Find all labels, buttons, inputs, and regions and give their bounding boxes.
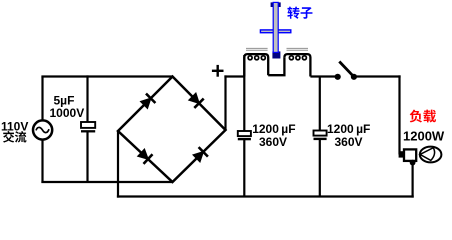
junction dot under socket <box>410 160 416 166</box>
wire: from + node to coil junction <box>224 75 244 77</box>
lamp bulb filament cone <box>420 148 435 161</box>
svg-text:1200W: 1200W <box>403 128 445 143</box>
capacitor C1 5uF top plate <box>81 122 95 128</box>
capacitor C1 5uF bottom plate <box>81 130 95 132</box>
switch S1 right contact <box>351 74 357 80</box>
svg-text:1200 µF: 1200 µF <box>252 122 295 136</box>
AC source V1 <box>33 120 52 139</box>
inductor L1 (left coil) <box>244 54 268 76</box>
svg-text:360V: 360V <box>335 135 363 149</box>
label 负载 <box>410 110 422 123</box>
switch S1 lever <box>339 62 354 77</box>
label 交流 <box>3 131 14 143</box>
capacitor C2 bottom wire <box>243 140 245 197</box>
capacitor C2 1200uF top plate <box>238 131 251 136</box>
inductor L1 core lines <box>246 47 268 49</box>
diode D4 bottom-right <box>193 152 203 162</box>
diode D3 bottom-left <box>138 149 148 159</box>
inductor L2 core lines <box>287 47 309 49</box>
lamp bulb envelope <box>420 147 442 163</box>
wire: bottom bus <box>117 195 414 197</box>
svg-text:1200 µF: 1200 µF <box>327 122 370 136</box>
label 转子 <box>287 7 299 19</box>
rotor vertical bar <box>273 2 278 52</box>
node + label <box>212 70 224 72</box>
wire: lower AC horizontal to bridge bottom <box>41 181 172 183</box>
wire: bridge left corner down to bottom bus <box>117 131 119 198</box>
switch S1 left contact <box>335 74 341 80</box>
inductor L2 (right coil) <box>284 54 310 76</box>
svg-text:360V: 360V <box>259 135 287 149</box>
wire: right column down to lamp <box>398 75 400 154</box>
rotor bottom cap <box>272 51 280 58</box>
svg-text:110V: 110V <box>1 120 28 134</box>
capacitor C3 bottom plate <box>314 138 327 140</box>
capacitor C3 1200uF branch <box>319 77 321 131</box>
diode D2 top-right <box>189 93 199 103</box>
svg-text:1000V: 1000V <box>50 106 85 120</box>
wire: load column down to bottom bus <box>412 163 414 198</box>
wire: switch to right column <box>354 75 401 77</box>
wire: bridge right corner up <box>224 75 226 130</box>
lamp socket square <box>404 149 416 161</box>
capacitor C3 bottom wire <box>319 139 321 197</box>
rotor crossbar <box>260 30 290 33</box>
capacitor C1 5uF branch top wire <box>86 75 88 122</box>
wire: U channel between coils <box>268 57 284 75</box>
diode D1 top-left <box>141 98 151 108</box>
wire: coil right to switch <box>310 75 337 77</box>
wire: stub into lamp socket <box>399 151 405 157</box>
wire: top horizontal from AC to bridge top <box>41 75 172 77</box>
bridge rectifier diamond <box>118 77 226 183</box>
wire: AC top column <box>41 77 43 122</box>
capacitor C1 bottom wire <box>86 131 88 182</box>
capacitor C3 top plate <box>314 131 327 136</box>
wire: AC bottom column <box>41 140 43 184</box>
rotor top cap <box>271 2 281 7</box>
wire: coil-left/cap junction column <box>243 55 245 131</box>
capacitor C2 1200uF bottom plate <box>238 138 251 140</box>
